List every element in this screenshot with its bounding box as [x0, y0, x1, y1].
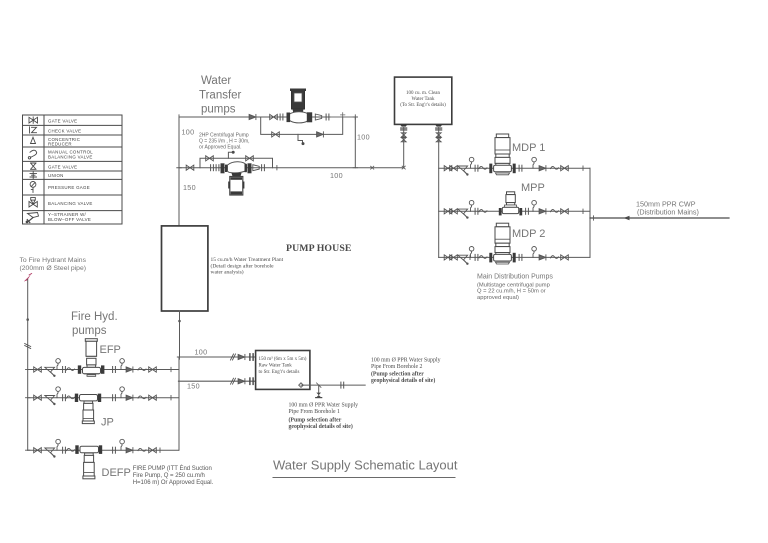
- JP branch pressure gage: [56, 387, 61, 398]
- JP branch y-strainer: [45, 396, 56, 406]
- gate valve on bypass P1: [272, 132, 280, 137]
- svg-text:Fire Hyd.: Fire Hyd.: [71, 311, 118, 323]
- pipe transfer suction header: [179, 167, 404, 169]
- clean tank outlet flange right: [435, 124, 442, 126]
- node branch2 tick: [582, 209, 584, 213]
- MDP branch 2 y-strainer: [458, 209, 469, 219]
- svg-text:BLOW–OFF VALVE: BLOW–OFF VALVE: [48, 217, 91, 222]
- DEFP branch flex: [67, 448, 75, 451]
- pipe MDP branch 1: [439, 167, 590, 169]
- gate valve outlet right upper: [436, 133, 441, 137]
- node junction tick suction: [276, 166, 278, 170]
- gate valve on discharge header: [270, 114, 278, 119]
- drain with blow-off on bypass P2: [228, 152, 232, 158]
- svg-text:(Pump selection after: (Pump selection after: [371, 371, 424, 378]
- DEFP branch gate valve: [34, 448, 42, 453]
- svg-text:pumps: pumps: [201, 104, 236, 116]
- svg-text:PRESSURE GAGE: PRESSURE GAGE: [48, 185, 90, 190]
- MDP branch 1 y-strainer: [458, 166, 469, 176]
- MDP branch 1 gate valve discharge: [561, 166, 569, 171]
- legend table frame: [23, 115, 123, 224]
- union after pump P1: [326, 114, 329, 120]
- node EFP tick: [170, 367, 172, 371]
- check valve on bypass P1: [317, 132, 324, 137]
- JP branch union: [63, 395, 66, 401]
- svg-text:approved equal): approved equal): [477, 295, 519, 301]
- legend symbol gate valve vertical: [31, 163, 37, 169]
- legend symbol gate valve: [29, 117, 38, 123]
- MDP branch 3 flex connector: [479, 256, 487, 259]
- JP discharge pressure gage: [120, 387, 125, 398]
- MDP branch 2 flex discharge: [551, 210, 559, 213]
- EFP branch union: [63, 367, 66, 373]
- node diamond at tank outlet: [299, 383, 304, 388]
- pump P2 transfer pump bottom: [221, 162, 252, 195]
- clean tank outlet flange left: [400, 124, 407, 126]
- pipe MDP branch 2 MPP: [439, 210, 590, 212]
- pipe fire suction manifold: [178, 357, 180, 450]
- EFP discharge pressure gage: [120, 359, 125, 370]
- svg-text:Water Supply Schematic Layout: Water Supply Schematic Layout: [273, 458, 458, 473]
- check valve on discharge header: [249, 114, 256, 119]
- svg-text:geophysical details of site): geophysical details of site): [371, 377, 435, 384]
- node tick at clean tank left riser base: [402, 166, 405, 169]
- pipe riser treatment plant to transfer header: [178, 117, 180, 232]
- JP branch flex: [67, 396, 75, 399]
- pipe borehole supply line: [301, 384, 365, 386]
- MDP branch 2 union: [475, 208, 478, 214]
- MDP branch 1 check valve: [539, 166, 546, 171]
- JP check valve: [126, 395, 133, 400]
- union after pump P2: [262, 165, 265, 171]
- pipe clean tank outlet right riser to MDP manifold: [438, 128, 440, 258]
- EFP branch pressure gage: [56, 359, 61, 370]
- legend symbol pressure gage: [30, 182, 36, 193]
- node tick riser joins suction header: [353, 167, 357, 169]
- DEFP branch y-strainer: [45, 448, 56, 458]
- DEFP discharge pressure gage: [120, 439, 125, 450]
- EFP branch gate valve: [34, 367, 42, 372]
- svg-text:FIRE PUMP (ITT Ėnd Suction: FIRE PUMP (ITT Ėnd Suction: [133, 465, 212, 472]
- svg-text:Water: Water: [201, 75, 231, 87]
- node DEFP tick: [159, 448, 161, 452]
- JP gate valve discharge: [149, 395, 157, 400]
- MDP branch 3 pressure gage: [469, 247, 474, 258]
- svg-text:(Pump selection after: (Pump selection after: [289, 417, 342, 424]
- legend symbol check valve: [30, 127, 37, 133]
- DEFP gate valve discharge: [149, 448, 157, 453]
- EFP branch y-strainer: [45, 367, 56, 377]
- reducer after pump P2: [253, 165, 259, 171]
- MDP branch 2 pressure gage: [469, 200, 474, 211]
- svg-text:150: 150: [187, 382, 200, 391]
- svg-text:(To Str. Eng'r's details): (To Str. Eng'r's details): [400, 103, 446, 108]
- svg-text:BALANCING VALVE: BALANCING VALVE: [48, 155, 93, 160]
- pump DEFP: [75, 445, 102, 479]
- node corner tick: [178, 115, 180, 119]
- pipe fire branch DEFP: [28, 449, 179, 451]
- underline of title: [273, 477, 455, 479]
- svg-text:GATE VALVE: GATE VALVE: [48, 119, 77, 124]
- svg-text:water analysis): water analysis): [211, 269, 244, 276]
- gate valve outlet right lower: [436, 138, 441, 142]
- DEFP discharge union: [113, 447, 116, 453]
- node bypass right tee: [341, 113, 345, 117]
- node transfer suction tee: [177, 166, 181, 170]
- DEFP branch union: [63, 447, 66, 453]
- MDP branch 3 check valve: [539, 255, 546, 260]
- svg-text:Q = 22 cu.m/h, H = 50m or: Q = 22 cu.m/h, H = 50m or: [477, 289, 546, 295]
- pipe thin segment to corner: [331, 116, 355, 118]
- svg-text:Pipe From Borehole 1: Pipe From Borehole 1: [289, 409, 340, 415]
- JP discharge union: [113, 395, 116, 401]
- svg-text:150: 150: [183, 183, 196, 192]
- pipe riser 100 to clean tank header: [354, 117, 356, 168]
- svg-text:H=106 m) Or Approved Equal.: H=106 m) Or Approved Equal.: [133, 480, 214, 486]
- node junction dot suction right: [371, 166, 374, 169]
- node tick at manifold outlet: [593, 216, 595, 220]
- pipe transfer discharge header 100: [179, 116, 355, 118]
- union suction header: [216, 165, 219, 171]
- gate valve on raw100: [238, 354, 245, 359]
- node tee borehole1: [318, 385, 320, 394]
- svg-text:(Distribution Mains): (Distribution Mains): [637, 208, 699, 217]
- break symbol on raw100: [231, 354, 236, 360]
- pipe fire branch JP: [28, 397, 179, 399]
- pipe distribution main 150mm: [590, 217, 729, 219]
- valve borehole1 stub: [316, 393, 321, 398]
- MDP branch 1 inlet gate valve pair: [444, 166, 452, 171]
- svg-text:15 cu.m/h Water Treatment Plan: 15 cu.m/h Water Treatment Plant: [211, 257, 284, 263]
- svg-text:MDP 2: MDP 2: [512, 228, 545, 240]
- svg-text:Fire Pump, Q = 250 cu.m/h: Fire Pump, Q = 250 cu.m/h: [133, 473, 205, 479]
- DEFP flex discharge: [138, 448, 146, 451]
- node arrow on distribution main: [624, 216, 630, 220]
- MDP branch 3 pressure gage discharge: [532, 247, 537, 258]
- DEFP check valve: [126, 448, 133, 453]
- svg-text:REDUCER: REDUCER: [48, 141, 72, 146]
- legend symbol union: [30, 172, 37, 179]
- svg-text:geophysical details of site): geophysical details of site): [289, 423, 353, 430]
- svg-text:(Detail design after borehole: (Detail design after borehole: [211, 262, 275, 269]
- svg-text:GATE VALVE: GATE VALVE: [48, 164, 77, 169]
- union on discharge header: [280, 114, 283, 120]
- legend symbol y-strainer: [26, 213, 38, 223]
- svg-text:100: 100: [195, 348, 208, 357]
- tank raw water: [256, 351, 310, 390]
- EFP branch flex: [67, 368, 75, 371]
- union on borehole line: [341, 382, 344, 388]
- pipe bypass loop around P1: [261, 117, 343, 134]
- svg-text:100: 100: [357, 133, 370, 142]
- node corner tick 2: [353, 115, 357, 119]
- legend symbol manual control balancing valve: [28, 150, 36, 159]
- MDP branch 1 pressure gage: [469, 157, 474, 168]
- legend symbol balancing valve: [29, 198, 37, 208]
- svg-text:UNION: UNION: [48, 173, 64, 178]
- gate valve on bypass P2 left: [206, 156, 214, 161]
- gate valve on raw150: [238, 379, 245, 384]
- flange at raw tank inlet 150: [250, 378, 253, 384]
- pump EFP: [78, 339, 105, 377]
- MDP branch 1 flex discharge: [551, 166, 559, 169]
- EFP discharge union: [113, 367, 116, 373]
- gate valve on bypass P2 right: [246, 156, 254, 161]
- svg-text:MPP: MPP: [521, 182, 545, 194]
- svg-text:JP: JP: [101, 417, 114, 429]
- MDP branch 2 gate valve discharge: [561, 209, 569, 214]
- pump MDP1: [489, 134, 515, 175]
- MDP branch 2 pressure gage discharge: [532, 200, 537, 211]
- flange suction header: [211, 165, 214, 171]
- MDP branch 1 flex connector: [479, 166, 487, 169]
- svg-text:100 mm Ø PPR Water Supply: 100 mm Ø PPR Water Supply: [289, 403, 359, 409]
- svg-text:BALANCING VALVE: BALANCING VALVE: [48, 201, 93, 206]
- svg-text:(200mm Ø Steel pipe): (200mm Ø Steel pipe): [20, 265, 87, 272]
- MDP branch 1 union: [475, 165, 478, 171]
- svg-text:to Str. Eng'r's details: to Str. Eng'r's details: [259, 370, 300, 375]
- MDP branch 2 flex connector: [479, 210, 487, 213]
- MDP branch 2 inlet gate valve pair: [444, 209, 452, 214]
- node dot on fire riser: [26, 318, 29, 321]
- pump JP: [75, 394, 101, 424]
- MDP branch 3 union: [475, 254, 478, 260]
- concentric reducer after pump P1: [315, 114, 321, 120]
- MDP branch 3 union discharge: [519, 254, 522, 260]
- pipe clean tank outlet left riser: [403, 128, 405, 168]
- svg-text:100: 100: [330, 171, 343, 180]
- JP flex discharge: [138, 396, 146, 399]
- pipe fire branch EFP: [28, 369, 179, 371]
- MDP branch 2 union discharge: [526, 208, 529, 214]
- svg-text:Pipe From Borehole 2: Pipe From Borehole 2: [371, 364, 422, 370]
- svg-text:MDP 1: MDP 1: [512, 142, 545, 154]
- pipe MDP discharge manifold: [589, 168, 591, 257]
- pipe treatment outlet down: [179, 311, 181, 357]
- MDP branch 1 pressure gage discharge: [532, 157, 537, 168]
- svg-text:100: 100: [182, 128, 195, 137]
- pipe MDP branch 3: [439, 256, 590, 258]
- pump MPP: [499, 192, 522, 216]
- node corner tick raw100: [177, 355, 181, 359]
- node tick JP tee: [26, 397, 30, 399]
- svg-text:Raw Water Tank: Raw Water Tank: [259, 363, 293, 368]
- svg-text:100 mm Ø PPR Water Supply: 100 mm Ø PPR Water Supply: [371, 358, 441, 364]
- MDP branch 3 flex discharge: [551, 256, 559, 259]
- svg-text:Water Tank: Water Tank: [412, 97, 435, 102]
- gate valve suction header: [186, 165, 194, 170]
- svg-text:(Multistage centrifugal pump: (Multistage centrifugal pump: [477, 283, 550, 289]
- pipe raw water 150 line: [179, 380, 256, 382]
- node tick EFP tee: [26, 369, 30, 371]
- svg-text:100 cu. m. Clean: 100 cu. m. Clean: [406, 91, 441, 96]
- node JP tick: [170, 396, 172, 400]
- pipe raw water 100 line: [180, 356, 256, 358]
- arrow to fire mains red: [24, 275, 31, 282]
- svg-text:DEFP: DEFP: [102, 467, 131, 479]
- gate valve outlet left lower: [401, 138, 406, 142]
- legend symbol concentric reducer: [31, 137, 36, 143]
- MDP branch 2 check valve: [539, 209, 546, 214]
- node branch1 tick: [582, 166, 584, 170]
- EFP gate valve discharge: [149, 367, 157, 372]
- tank clean water 100 cu m: [395, 77, 452, 124]
- pipe bypass loop above P2: [200, 158, 273, 167]
- MDP branch 3 inlet gate valve pair: [444, 255, 452, 260]
- node branch3 tick: [469, 255, 471, 259]
- drain with blow-off on bypass P1: [298, 134, 303, 142]
- pump P1 transfer pump top: [287, 89, 313, 123]
- tank water treatment plant: [162, 226, 208, 311]
- svg-text:PUMP HOUSE: PUMP HOUSE: [286, 243, 352, 254]
- svg-text:150 m³ (6m x 5m x 5m): 150 m³ (6m x 5m x 5m): [259, 356, 307, 362]
- svg-text:Transfer: Transfer: [199, 90, 242, 102]
- EFP check valve: [126, 367, 133, 372]
- JP branch gate valve: [34, 395, 42, 400]
- node tick DEFP corner: [26, 449, 30, 451]
- pump MDP2: [489, 223, 515, 264]
- break symbol on raw150: [231, 378, 236, 384]
- gate valve outlet left upper: [401, 133, 406, 137]
- svg-text:Main Distribution Pumps: Main Distribution Pumps: [477, 274, 553, 281]
- flange at raw tank inlet 100: [250, 354, 253, 360]
- EFP flex discharge: [138, 368, 146, 371]
- MDP branch 3 gate valve discharge: [561, 255, 569, 260]
- break symbol on fire riser: [25, 344, 31, 349]
- node junction dot treatment outlet: [178, 320, 181, 323]
- svg-text:EFP: EFP: [100, 344, 121, 356]
- pipe fire hydrant riser: [27, 280, 29, 451]
- svg-text:pumps: pumps: [72, 325, 107, 337]
- svg-text:CHECK VALVE: CHECK VALVE: [48, 128, 81, 133]
- DEFP branch pressure gage: [56, 439, 61, 450]
- MDP branch 3 y-strainer: [458, 255, 469, 265]
- svg-text:or Approved Equal.: or Approved Equal.: [199, 145, 242, 151]
- svg-text:To Fire Hydrant Mains: To Fire Hydrant Mains: [20, 257, 87, 264]
- MDP branch 1 union discharge: [519, 165, 522, 171]
